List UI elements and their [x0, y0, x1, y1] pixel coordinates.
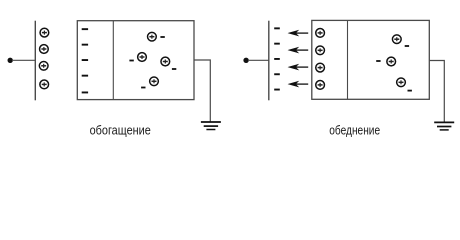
hole-electron pair 1 (left box) — [148, 32, 165, 41]
accumulated electron 3 — [82, 59, 88, 61]
ionized donor 3 — [316, 63, 325, 72]
hole-electron pair 4 (left box) — [141, 77, 158, 88]
wire from right terminal to gate plate — [248, 59, 269, 61]
ionized donor 2 — [316, 46, 325, 55]
negative charge on gate 3 — [274, 58, 280, 60]
right terminal dot — [243, 58, 248, 63]
hole-electron pair 2 (left box) — [129, 53, 146, 62]
negative charge on gate 2 — [274, 43, 280, 45]
gate plate (left diagram) — [34, 21, 36, 101]
negative charge on gate 5 — [274, 89, 280, 91]
oxide/surface interface divider (left diagram) — [112, 21, 114, 100]
svg-text:обогащение: обогащение — [90, 124, 151, 138]
ionized donor 1 — [316, 29, 325, 38]
semiconductor body box (left diagram) — [77, 21, 194, 100]
negative charge on gate 4 — [274, 73, 280, 75]
accumulated electron 2 — [82, 44, 88, 46]
hole-electron pair 3 (right box) — [397, 78, 412, 92]
svg-text:обеднение: обеднение — [329, 124, 380, 138]
accumulated electron 5 — [82, 92, 88, 94]
ground (right diagram) — [434, 122, 454, 129]
field arrow 4 — [289, 81, 309, 86]
semiconductor body box (right diagram) — [312, 20, 430, 99]
depletion region divider (right diagram) — [347, 20, 349, 99]
positive charge on gate 3 — [39, 61, 48, 70]
positive charge on gate 1 — [40, 28, 49, 37]
hole-electron pair 3 (left box) — [161, 57, 176, 70]
field arrow 3 — [289, 64, 309, 69]
field arrow 2 — [289, 47, 309, 52]
field arrow 1 — [289, 30, 309, 35]
positive charge on gate 4 — [40, 80, 49, 89]
left terminal dot — [8, 58, 13, 63]
wire from right box to ground — [429, 61, 444, 123]
ground (left diagram) — [201, 122, 221, 130]
gate plate (right diagram) — [268, 21, 270, 101]
hole-electron pair 2 (right box) — [376, 57, 395, 66]
accumulated electron 1 — [82, 28, 88, 30]
hole-electron pair 1 (right box) — [392, 35, 409, 47]
ionized donor 4 — [316, 81, 325, 90]
negative charge on gate 1 — [274, 27, 280, 29]
wire from left terminal to gate plate — [12, 59, 35, 61]
wire from left box to ground — [194, 60, 210, 122]
positive charge on gate 2 — [40, 45, 49, 54]
accumulated electron 4 — [82, 75, 88, 77]
